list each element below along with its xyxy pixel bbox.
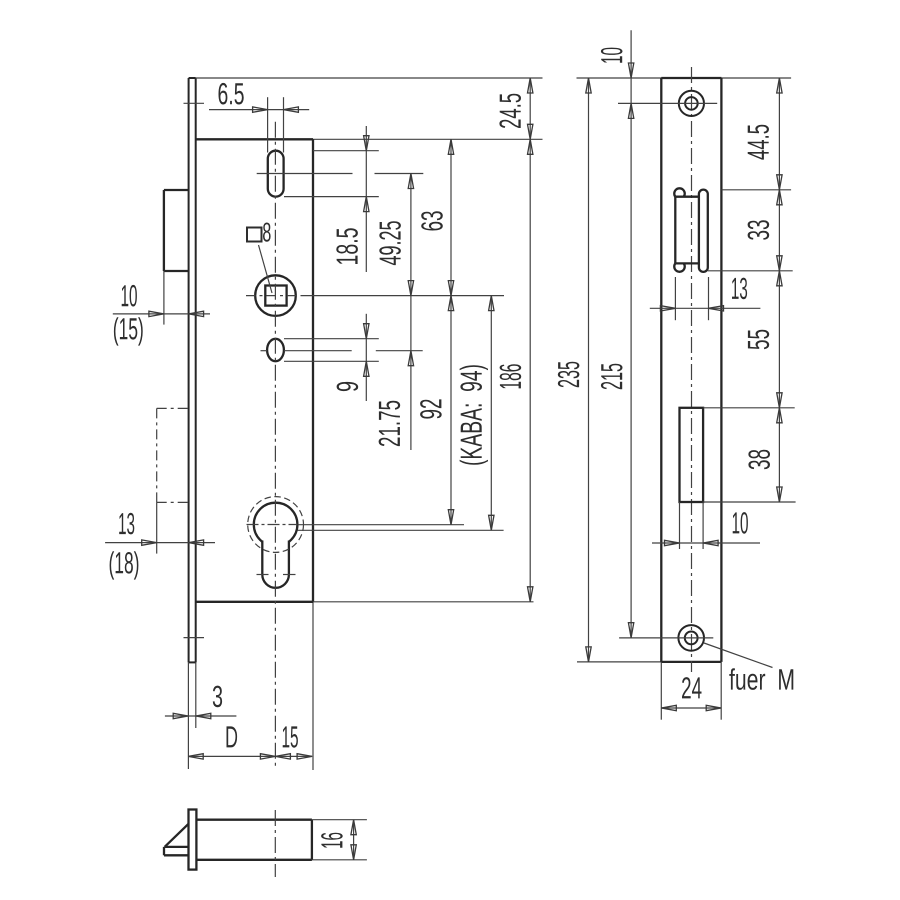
dim line for 18.5 and 9 [364,126,369,401]
strike plate bottom extension line [577,661,721,663]
dimension text 92 [420,399,442,418]
dimension text 55 [748,330,769,349]
dimension 6.5 lines and arrows [209,107,309,112]
follower circle [255,275,296,316]
dimension text (KABA: 94) [460,365,488,465]
ext line 38 top [703,407,795,409]
dimension text 186 [500,364,522,388]
bottom view centerline [274,810,276,877]
cylinder center extension line (92) [298,524,465,526]
deadbolt cutout rectangle [680,408,704,502]
dimension 13 line and arrows (cutout) [650,306,761,311]
strike plate top extension line [577,77,792,79]
dimension D and 15 line and arrows [188,754,312,759]
bottom view latch bevel (wedge) [165,824,189,847]
strike plate centerline [691,67,693,672]
cylinder horizontal centerline [247,524,298,526]
dimension 24 line and arrows [661,705,721,710]
deadbolt extension line [156,502,158,553]
dim line 235 [586,78,591,662]
follower square hole 8mm [265,286,286,306]
ext line 44.5 top [721,189,791,191]
dimension text 38 [748,450,770,470]
leader line for square 8 [259,245,273,293]
leader line fuer M [704,643,773,668]
latch cutout bottom-left lobe [674,263,685,271]
dimension text (18) [110,551,139,579]
deadbolt cutout 10 extension lines [680,502,704,549]
dimension text 3 [213,686,222,708]
dimension text 10 left [122,285,137,307]
bottom view case body [196,820,312,860]
dimension text 16 [321,833,343,848]
dim line 44.5/33/55/38 [777,78,782,502]
dimension text 6.5 [219,83,244,105]
small hole center extension line [261,350,423,352]
latch cutout box [675,197,699,264]
dimension text 13 (cutout) [732,278,747,300]
follower center extension line right [302,295,504,297]
faceplate back edge line (left view) [195,78,197,662]
bottom screw hole crosshair [619,637,713,639]
euro cylinder keyway [262,541,289,588]
dimension text 235 [558,362,580,388]
dimension 10 line and arrows (deadbolt cutout) [652,540,760,545]
dim line 10 and 215 [628,30,633,637]
dimension text 33 [748,220,770,240]
dimension 13/(18) line and arrows [105,540,215,545]
dimension text (15) [114,317,143,345]
faceplate front edge line (left view) [188,78,190,662]
dim line for 24.5 and 186 [528,78,533,602]
dimension text D [227,726,238,747]
slot bottom extension line [284,196,379,198]
dimension text 9 [337,382,359,391]
latch bolt extension line [163,271,165,325]
label text fuer M [729,668,793,690]
top screw hole crosshair [618,102,717,104]
KABA center extension line (94) [298,529,504,531]
faceplate top cap [189,77,196,79]
dashed KABA cylinder circle [248,497,304,553]
dim line for 49.25 and 21.75 [408,174,413,451]
slot center extension line [257,173,424,175]
ext line 38 bottom [703,501,796,503]
strike plate outline [661,78,721,662]
lock case top extension line to dims [313,138,543,140]
lock case bottom edge [196,601,313,603]
small fixing hole (oval) [267,339,284,361]
bottom view faceplate bar [189,810,197,870]
top fixing slot (stadium shape) [268,151,284,197]
dimension text 44.5 [748,125,769,160]
faceplate thickness extension lines [188,662,195,769]
faceplate bottom break tick [184,637,205,639]
lock case top edge [196,138,313,140]
dimension text 18.5 [336,228,358,264]
bottom view latch underside bar [164,847,189,855]
ext line 33 bottom [708,270,793,272]
dimension text 24.5 [499,94,521,128]
bottom screw hole [678,625,704,651]
dimension text 24 [682,677,702,698]
small hole top extension line [284,338,379,340]
euro cylinder circle [254,503,298,547]
latch cutout right strip (rounded) [699,190,708,272]
dimension 16 line and arrows [351,820,356,860]
deadbolt phantom box [157,408,189,502]
dimension text 49.25 [379,221,401,265]
dimension text 63 [421,211,443,230]
lock case right edge extension down [312,602,314,770]
dimension text 215 [601,364,623,390]
latch bolt rectangle (left view) [164,190,189,271]
small hole bottom extension line [284,360,379,362]
faceplate top break tick [184,102,205,104]
lock case right edge [312,139,314,602]
dimension text 10 top [601,48,623,63]
dimension 3 line and arrows [165,713,237,718]
dimension text 10 (deadbolt cutout) [733,512,748,534]
latch cutout top-left lobe [674,188,685,196]
top screw hole [679,91,704,116]
dimension 6.5 extension lines [268,97,284,152]
follower center tick left [246,295,302,297]
strike plate 24 extension lines [661,662,721,720]
faceplate bottom cap [189,661,196,663]
dimension text 15 [283,726,298,747]
label text 8 [263,223,271,242]
square symbol for 8mm [247,228,262,242]
faceplate top extension line right [196,77,543,79]
lock case bottom extension line to dims [313,601,534,603]
vertical centerline of left view [274,122,276,770]
dim line for KABA 94 [489,296,494,531]
keyway arc center tick [257,574,296,576]
latch cutout 13 extension lines [675,277,708,320]
dimension 10/(15) line and arrows [113,311,210,316]
dimension text 13 left [119,513,134,535]
dimension text 21.75 [379,401,401,446]
slot top extension line [313,150,379,152]
bottom view extension lines for 16 [312,820,367,860]
dim line for 63 and 92 [448,139,453,524]
